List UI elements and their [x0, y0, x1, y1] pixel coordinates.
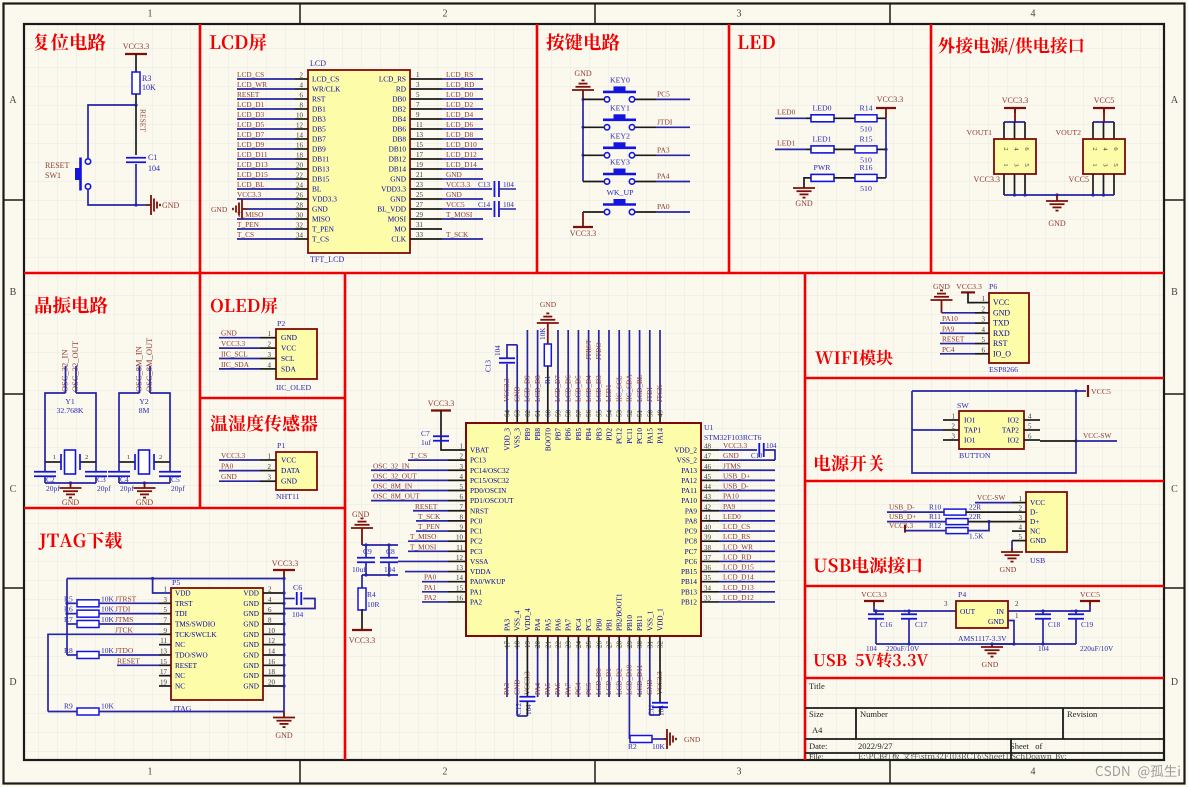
svg-text:C4: C4 — [120, 475, 129, 484]
svg-text:GND: GND — [243, 620, 259, 628]
svg-text:22: 22 — [555, 641, 563, 649]
svg-text:AMS1117-3.3V: AMS1117-3.3V — [958, 634, 1007, 643]
svg-text:10K: 10K — [101, 646, 115, 655]
svg-text:JTCK: JTCK — [115, 625, 134, 634]
svg-text:1uf: 1uf — [421, 438, 432, 447]
svg-text:12: 12 — [296, 122, 304, 130]
svg-text:ESP8266: ESP8266 — [989, 365, 1018, 374]
wires VSSA/VDDA — [398, 560, 448, 562]
resistor R4 — [358, 588, 366, 610]
wire AMS left rail — [874, 606, 956, 611]
svg-text:61: 61 — [534, 410, 542, 418]
svg-text:T_PEN: T_PEN — [418, 522, 441, 531]
svg-text:9: 9 — [416, 111, 420, 119]
svg-text:BUTTON: BUTTON — [959, 451, 991, 460]
svg-text:PA3: PA3 — [504, 618, 512, 631]
svg-text:17: 17 — [416, 151, 424, 159]
svg-text:MISO: MISO — [312, 215, 330, 224]
capacitor left of Y1 — [34, 471, 56, 473]
wire JTAG right GND bus — [283, 579, 285, 712]
svg-text:USB_D+: USB_D+ — [723, 471, 750, 480]
svg-text:VCC3.3: VCC3.3 — [956, 282, 982, 291]
svg-text:NHT11: NHT11 — [276, 492, 300, 501]
connector P1 body — [276, 452, 317, 490]
svg-text:14: 14 — [296, 132, 304, 140]
svg-text:TFT_LCD: TFT_LCD — [310, 255, 344, 264]
svg-text:LCD_D13: LCD_D13 — [237, 160, 268, 169]
svg-text:R5: R5 — [64, 594, 73, 603]
resistor R10 — [944, 509, 966, 515]
svg-text:34: 34 — [704, 584, 712, 592]
svg-text:RESET: RESET — [415, 502, 438, 511]
svg-text:OSC_8M_OUT: OSC_8M_OUT — [373, 492, 420, 501]
svg-text:14: 14 — [456, 574, 464, 582]
svg-text:DB11: DB11 — [312, 155, 330, 164]
svg-text:SCL: SCL — [281, 354, 295, 363]
svg-text:GND: GND — [684, 735, 701, 744]
svg-text:PA0: PA0 — [657, 202, 670, 211]
svg-text:23: 23 — [416, 181, 424, 189]
svg-text:R11: R11 — [929, 512, 941, 521]
svg-text:RESET: RESET — [237, 90, 260, 99]
svg-text:VSS_2: VSS_2 — [677, 457, 698, 465]
svg-text:VCC3.3: VCC3.3 — [723, 441, 747, 450]
svg-text:PB15: PB15 — [681, 568, 697, 576]
svg-text:104: 104 — [148, 164, 160, 173]
wire JTAG top rail — [67, 578, 284, 580]
svg-text:1: 1 — [1019, 495, 1023, 503]
svg-text:10K: 10K — [142, 83, 156, 92]
svg-text:R2: R2 — [628, 742, 637, 751]
svg-text:4: 4 — [982, 326, 986, 334]
svg-text:C8: C8 — [386, 547, 395, 556]
svg-text:1: 1 — [982, 295, 986, 303]
svg-text:1: 1 — [53, 454, 56, 461]
svg-text:2: 2 — [460, 453, 464, 461]
watermark CSDN — [1096, 765, 1180, 779]
svg-text:T_MISO: T_MISO — [410, 532, 436, 541]
svg-text:VCC3.3: VCC3.3 — [974, 175, 1000, 184]
MCU top/bottom pins — [506, 410, 508, 423]
svg-text:T_MOSI: T_MOSI — [446, 210, 473, 219]
svg-text:D-: D- — [1030, 508, 1038, 517]
svg-text:VBAT: VBAT — [470, 447, 489, 455]
svg-text:LCD_RD: LCD_RD — [723, 552, 751, 561]
svg-text:LCD_D7: LCD_D7 — [554, 375, 562, 402]
svg-text:9: 9 — [164, 627, 168, 635]
svg-text:53: 53 — [616, 410, 624, 418]
capacitor C16 — [868, 613, 884, 615]
svg-text:GND: GND — [211, 205, 228, 214]
capacitor C1 — [126, 157, 146, 159]
switch SW1 — [75, 158, 91, 191]
wire keys GND bus — [582, 99, 584, 181]
svg-text:R7: R7 — [64, 615, 73, 624]
svg-text:PA11: PA11 — [682, 487, 698, 495]
connector TFT_LCD body — [308, 70, 410, 253]
svg-text:GND: GND — [312, 205, 328, 214]
svg-text:PC4: PC4 — [942, 345, 955, 354]
svg-text:10K: 10K — [539, 327, 547, 340]
title 复位电路 — [34, 33, 105, 50]
svg-text:C12: C12 — [515, 703, 523, 715]
svg-text:PA1: PA1 — [424, 583, 437, 592]
MCU top wires and net labels — [506, 364, 508, 410]
svg-text:TAP1: TAP1 — [964, 426, 981, 435]
svg-text:DB7: DB7 — [312, 135, 326, 144]
svg-text:DB13: DB13 — [312, 165, 330, 174]
svg-text:DB2: DB2 — [392, 105, 406, 114]
ground GND (USB) — [1011, 548, 1013, 552]
wire JTAG left pullup bus — [66, 579, 68, 624]
svg-text:VCC3.3: VCC3.3 — [349, 636, 375, 645]
connector P6 body — [989, 293, 1029, 363]
svg-text:8M: 8M — [139, 406, 150, 415]
connector USB body — [1026, 492, 1067, 552]
svg-text:PA2: PA2 — [470, 598, 483, 606]
title 温湿度传感器 — [211, 415, 318, 432]
svg-text:37: 37 — [704, 554, 712, 562]
svg-text:VCC3.3: VCC3.3 — [221, 339, 245, 348]
svg-text:PB0: PB0 — [595, 618, 603, 631]
svg-text:VCC3.3: VCC3.3 — [889, 521, 913, 530]
svg-text:PA0: PA0 — [424, 573, 437, 582]
svg-text:VDD3.3: VDD3.3 — [381, 185, 406, 194]
svg-text:4: 4 — [460, 473, 464, 481]
svg-text:P4: P4 — [958, 590, 966, 599]
svg-text:TCK/SWCLK: TCK/SWCLK — [175, 631, 217, 639]
svg-text:R9: R9 — [64, 702, 73, 711]
svg-text:1: 1 — [1002, 163, 1009, 166]
connector USB pins — [1012, 502, 1026, 504]
svg-text:2: 2 — [268, 586, 272, 594]
connector P2 pins — [260, 337, 276, 339]
connector P6 pins — [975, 302, 989, 304]
connector SW body — [959, 411, 1024, 449]
svg-text:PWR: PWR — [814, 163, 832, 172]
svg-text:1: 1 — [164, 586, 168, 594]
wire SW1 to bottom rail — [88, 190, 136, 205]
svg-text:12: 12 — [456, 554, 464, 562]
svg-text:PA14: PA14 — [657, 428, 665, 444]
connector LCD pins — [295, 78, 308, 80]
capacitor C18 — [1035, 613, 1051, 615]
svg-text:A: A — [1171, 95, 1179, 106]
svg-text:MOSI: MOSI — [388, 215, 407, 224]
svg-text:PC8: PC8 — [685, 538, 698, 546]
resistor R2 — [628, 738, 631, 740]
svg-text:2: 2 — [1091, 147, 1098, 150]
svg-text:5: 5 — [982, 336, 986, 344]
svg-text:TXD: TXD — [993, 319, 1010, 328]
svg-text:104: 104 — [384, 565, 396, 574]
power port VCC3.3 (keys) — [573, 226, 593, 228]
svg-text:LCD_D12: LCD_D12 — [446, 150, 477, 159]
svg-text:17: 17 — [160, 668, 168, 676]
svg-text:2: 2 — [982, 305, 986, 313]
svg-text:Date:: Date: — [809, 741, 827, 751]
svg-text:NC: NC — [175, 682, 185, 690]
svg-text:20pf: 20pf — [171, 484, 185, 493]
svg-text:GND: GND — [795, 199, 813, 208]
svg-text:TDO/SWO: TDO/SWO — [175, 651, 208, 659]
svg-text:PA4: PA4 — [534, 682, 542, 695]
svg-text:PA5: PA5 — [544, 682, 552, 695]
svg-text:PC2: PC2 — [470, 538, 483, 546]
svg-text:Sheet of: Sheet of — [1010, 741, 1043, 751]
svg-text:10: 10 — [296, 112, 304, 120]
svg-text:VCC5: VCC5 — [1069, 175, 1089, 184]
title 电源开关 — [815, 455, 883, 472]
svg-text:R16: R16 — [860, 163, 873, 172]
title USB 5V转3.3V — [814, 652, 929, 667]
svg-text:1: 1 — [268, 330, 272, 338]
svg-text:21: 21 — [416, 171, 424, 179]
svg-text:10uf: 10uf — [352, 565, 366, 574]
svg-text:LCD_D2: LCD_D2 — [446, 100, 474, 109]
svg-text:13: 13 — [416, 131, 424, 139]
svg-text:LCD: LCD — [310, 59, 326, 68]
svg-text:41: 41 — [704, 513, 712, 521]
svg-text:GND: GND — [1030, 536, 1047, 545]
power port VCC3.3 (R4) — [352, 629, 372, 631]
file path text — [858, 752, 1066, 761]
svg-text:VCC-SW: VCC-SW — [1083, 431, 1111, 440]
svg-text:PA10: PA10 — [681, 497, 697, 505]
svg-text:5: 5 — [460, 483, 464, 491]
svg-text:NRST: NRST — [470, 507, 489, 515]
MCU U1 body — [466, 423, 701, 636]
svg-text:26: 26 — [296, 192, 304, 200]
svg-text:LED1: LED1 — [605, 384, 613, 402]
svg-text:RESET: RESET — [175, 662, 198, 670]
svg-text:104: 104 — [494, 345, 502, 356]
regulator AMS1117 body — [956, 601, 1008, 628]
svg-text:LCD_D9: LCD_D9 — [524, 375, 532, 402]
svg-text:PC1: PC1 — [470, 528, 483, 536]
svg-text:3: 3 — [1013, 163, 1020, 166]
svg-text:220uF/10V: 220uF/10V — [1080, 644, 1114, 653]
svg-text:3: 3 — [416, 81, 420, 89]
svg-text:5: 5 — [1028, 423, 1032, 431]
svg-text:3: 3 — [944, 600, 948, 608]
svg-text:RESET: RESET — [45, 161, 70, 170]
svg-text:10: 10 — [268, 627, 276, 635]
svg-text:VCC3.3: VCC3.3 — [123, 42, 149, 51]
svg-text:29: 29 — [626, 641, 634, 649]
title 按键电路 — [546, 33, 619, 50]
svg-text:7: 7 — [164, 616, 168, 624]
svg-text:GND: GND — [988, 617, 1005, 626]
svg-text:50: 50 — [646, 410, 654, 418]
svg-text:Revision: Revision — [1067, 709, 1098, 719]
svg-text:19: 19 — [524, 641, 532, 649]
svg-text:R8: R8 — [64, 646, 73, 655]
svg-text:GND: GND — [1000, 565, 1017, 574]
svg-text:27: 27 — [416, 201, 424, 209]
svg-text:C1: C1 — [148, 153, 157, 162]
svg-text:510: 510 — [860, 124, 872, 133]
svg-text:51: 51 — [636, 410, 644, 418]
svg-text:3: 3 — [1102, 163, 1109, 166]
svg-text:32: 32 — [657, 641, 665, 649]
svg-text:PA9: PA9 — [723, 502, 736, 511]
svg-text:LCD_D15: LCD_D15 — [237, 170, 268, 179]
svg-text:PA8: PA8 — [685, 517, 698, 525]
svg-text:LCD_D0: LCD_D0 — [446, 90, 474, 99]
svg-text:2: 2 — [85, 454, 88, 461]
svg-text:PB9: PB9 — [524, 428, 532, 441]
svg-text:PC3: PC3 — [470, 548, 483, 556]
wire WK_UP to VCC3.3 — [582, 212, 584, 227]
svg-text:OSC_8M_IN: OSC_8M_IN — [373, 482, 413, 491]
svg-text:8: 8 — [460, 513, 464, 521]
svg-text:PC4: PC4 — [575, 618, 583, 631]
svg-text:PC7: PC7 — [685, 548, 698, 556]
svg-text:2: 2 — [300, 72, 304, 80]
svg-text:17: 17 — [504, 641, 512, 649]
svg-text:3: 3 — [1019, 514, 1023, 522]
svg-text:1: 1 — [1015, 612, 1019, 620]
wire C1 to rail — [135, 164, 137, 205]
title OLED屏 — [211, 297, 278, 313]
svg-text:LCD_D14: LCD_D14 — [723, 573, 754, 582]
svg-text:52: 52 — [626, 410, 634, 418]
svg-text:33: 33 — [416, 231, 424, 239]
svg-text:LCD_D13: LCD_D13 — [723, 583, 754, 592]
svg-text:Number: Number — [860, 709, 888, 719]
svg-text:49: 49 — [657, 410, 665, 418]
svg-text:GND: GND — [243, 672, 259, 680]
svg-text:TAP2: TAP2 — [1002, 426, 1019, 435]
svg-text:6: 6 — [982, 346, 986, 354]
svg-text:58: 58 — [565, 410, 573, 418]
svg-text:B: B — [10, 287, 17, 298]
svg-text:PB5: PB5 — [575, 428, 583, 441]
svg-text:6: 6 — [460, 493, 464, 501]
svg-text:GND: GND — [275, 731, 293, 740]
svg-text:DB6: DB6 — [392, 125, 406, 134]
svg-text:LCD_D9: LCD_D9 — [237, 140, 265, 149]
svg-text:D: D — [9, 677, 16, 688]
wires VOUT1 bottom — [1003, 174, 1005, 195]
title WIFI模块 — [815, 350, 893, 366]
svg-text:7: 7 — [460, 503, 464, 511]
svg-text:VDD3.3: VDD3.3 — [312, 195, 337, 204]
svg-text:LCD_D5: LCD_D5 — [237, 120, 265, 129]
svg-text:3: 3 — [737, 767, 742, 778]
svg-text:2: 2 — [159, 454, 162, 461]
svg-text:TRST: TRST — [175, 600, 193, 608]
svg-text:PA5: PA5 — [544, 618, 552, 631]
svg-text:43: 43 — [704, 493, 712, 501]
capacitor C19 — [1068, 613, 1084, 615]
svg-text:27: 27 — [606, 641, 614, 649]
svg-text:IO1: IO1 — [964, 416, 976, 425]
wire SW pin6 — [1040, 440, 1076, 442]
svg-text:JTDI: JTDI — [115, 605, 131, 614]
svg-text:20: 20 — [296, 162, 304, 170]
svg-text:+: + — [903, 607, 907, 615]
svg-text:LED1: LED1 — [812, 134, 831, 143]
wire USB GND — [1011, 541, 1013, 548]
svg-text:D+: D+ — [1030, 517, 1040, 526]
wire node loop left — [88, 105, 136, 158]
svg-text:32.768K: 32.768K — [56, 406, 83, 415]
svg-text:LED0: LED0 — [777, 107, 796, 116]
svg-text:19: 19 — [416, 161, 424, 169]
svg-text:NC: NC — [175, 672, 185, 680]
svg-text:25: 25 — [416, 191, 424, 199]
svg-text:RST: RST — [993, 339, 1008, 348]
svg-text:VDD_4: VDD_4 — [524, 608, 532, 631]
svg-text:62: 62 — [524, 410, 532, 418]
svg-text:R3: R3 — [142, 74, 151, 83]
svg-text:IIC_SCL: IIC_SCL — [615, 376, 623, 402]
svg-text:VDD: VDD — [243, 590, 259, 598]
svg-text:VCC3.3: VCC3.3 — [877, 95, 903, 104]
svg-text:LCD_D0: LCD_D0 — [595, 668, 603, 695]
svg-text:11: 11 — [456, 544, 463, 552]
svg-text:C10: C10 — [751, 453, 763, 460]
svg-text:63: 63 — [514, 410, 522, 418]
svg-text:VDD_2: VDD_2 — [674, 447, 697, 455]
svg-text:B: B — [1171, 287, 1178, 298]
svg-text:IIC_OLED: IIC_OLED — [276, 383, 311, 392]
svg-text:45: 45 — [704, 473, 712, 481]
svg-text:PC14/OSC32: PC14/OSC32 — [470, 467, 510, 475]
svg-text:DB9: DB9 — [312, 145, 326, 154]
resistor R3 — [132, 72, 140, 94]
svg-text:SW1: SW1 — [45, 171, 61, 180]
svg-text:10: 10 — [456, 534, 464, 542]
svg-text:PA9: PA9 — [942, 324, 955, 333]
svg-text:WK_UP: WK_UP — [607, 188, 635, 197]
svg-text:32: 32 — [296, 222, 304, 230]
svg-text:OSC_8M_OUT: OSC_8M_OUT — [144, 337, 154, 392]
svg-text:PC6: PC6 — [685, 558, 698, 566]
svg-text:DB8: DB8 — [392, 135, 406, 144]
svg-text:PC5: PC5 — [657, 89, 670, 98]
svg-text:C6: C6 — [293, 583, 302, 592]
svg-text:C: C — [1171, 484, 1178, 495]
wire AMS right rail — [1008, 606, 1090, 611]
svg-text:21: 21 — [544, 641, 552, 649]
svg-text:VOUT1: VOUT1 — [966, 128, 992, 137]
svg-text:1: 1 — [127, 454, 130, 461]
svg-text:VCC3.3: VCC3.3 — [1002, 96, 1028, 105]
svg-text:20pf: 20pf — [97, 484, 111, 493]
connector SW pins — [943, 419, 959, 421]
svg-text:3: 3 — [268, 351, 272, 359]
svg-text:1: 1 — [460, 443, 464, 451]
svg-text:LCD_D6: LCD_D6 — [564, 375, 572, 402]
svg-text:C5: C5 — [171, 475, 180, 484]
svg-text:VCC3.3: VCC3.3 — [428, 399, 454, 408]
svg-text:46: 46 — [704, 463, 712, 471]
wire node to C1 — [135, 105, 137, 155]
svg-text:VDD: VDD — [175, 590, 191, 598]
svg-text:18: 18 — [296, 152, 304, 160]
svg-text:4: 4 — [268, 361, 272, 369]
svg-text:JTDI: JTDI — [646, 387, 654, 402]
svg-text:22: 22 — [296, 172, 304, 180]
svg-text:42: 42 — [704, 503, 712, 511]
svg-text:C16: C16 — [880, 620, 893, 629]
svg-text:GND: GND — [221, 472, 237, 481]
svg-text:2022/9/27: 2022/9/27 — [858, 741, 892, 751]
svg-text:C13: C13 — [485, 360, 493, 372]
